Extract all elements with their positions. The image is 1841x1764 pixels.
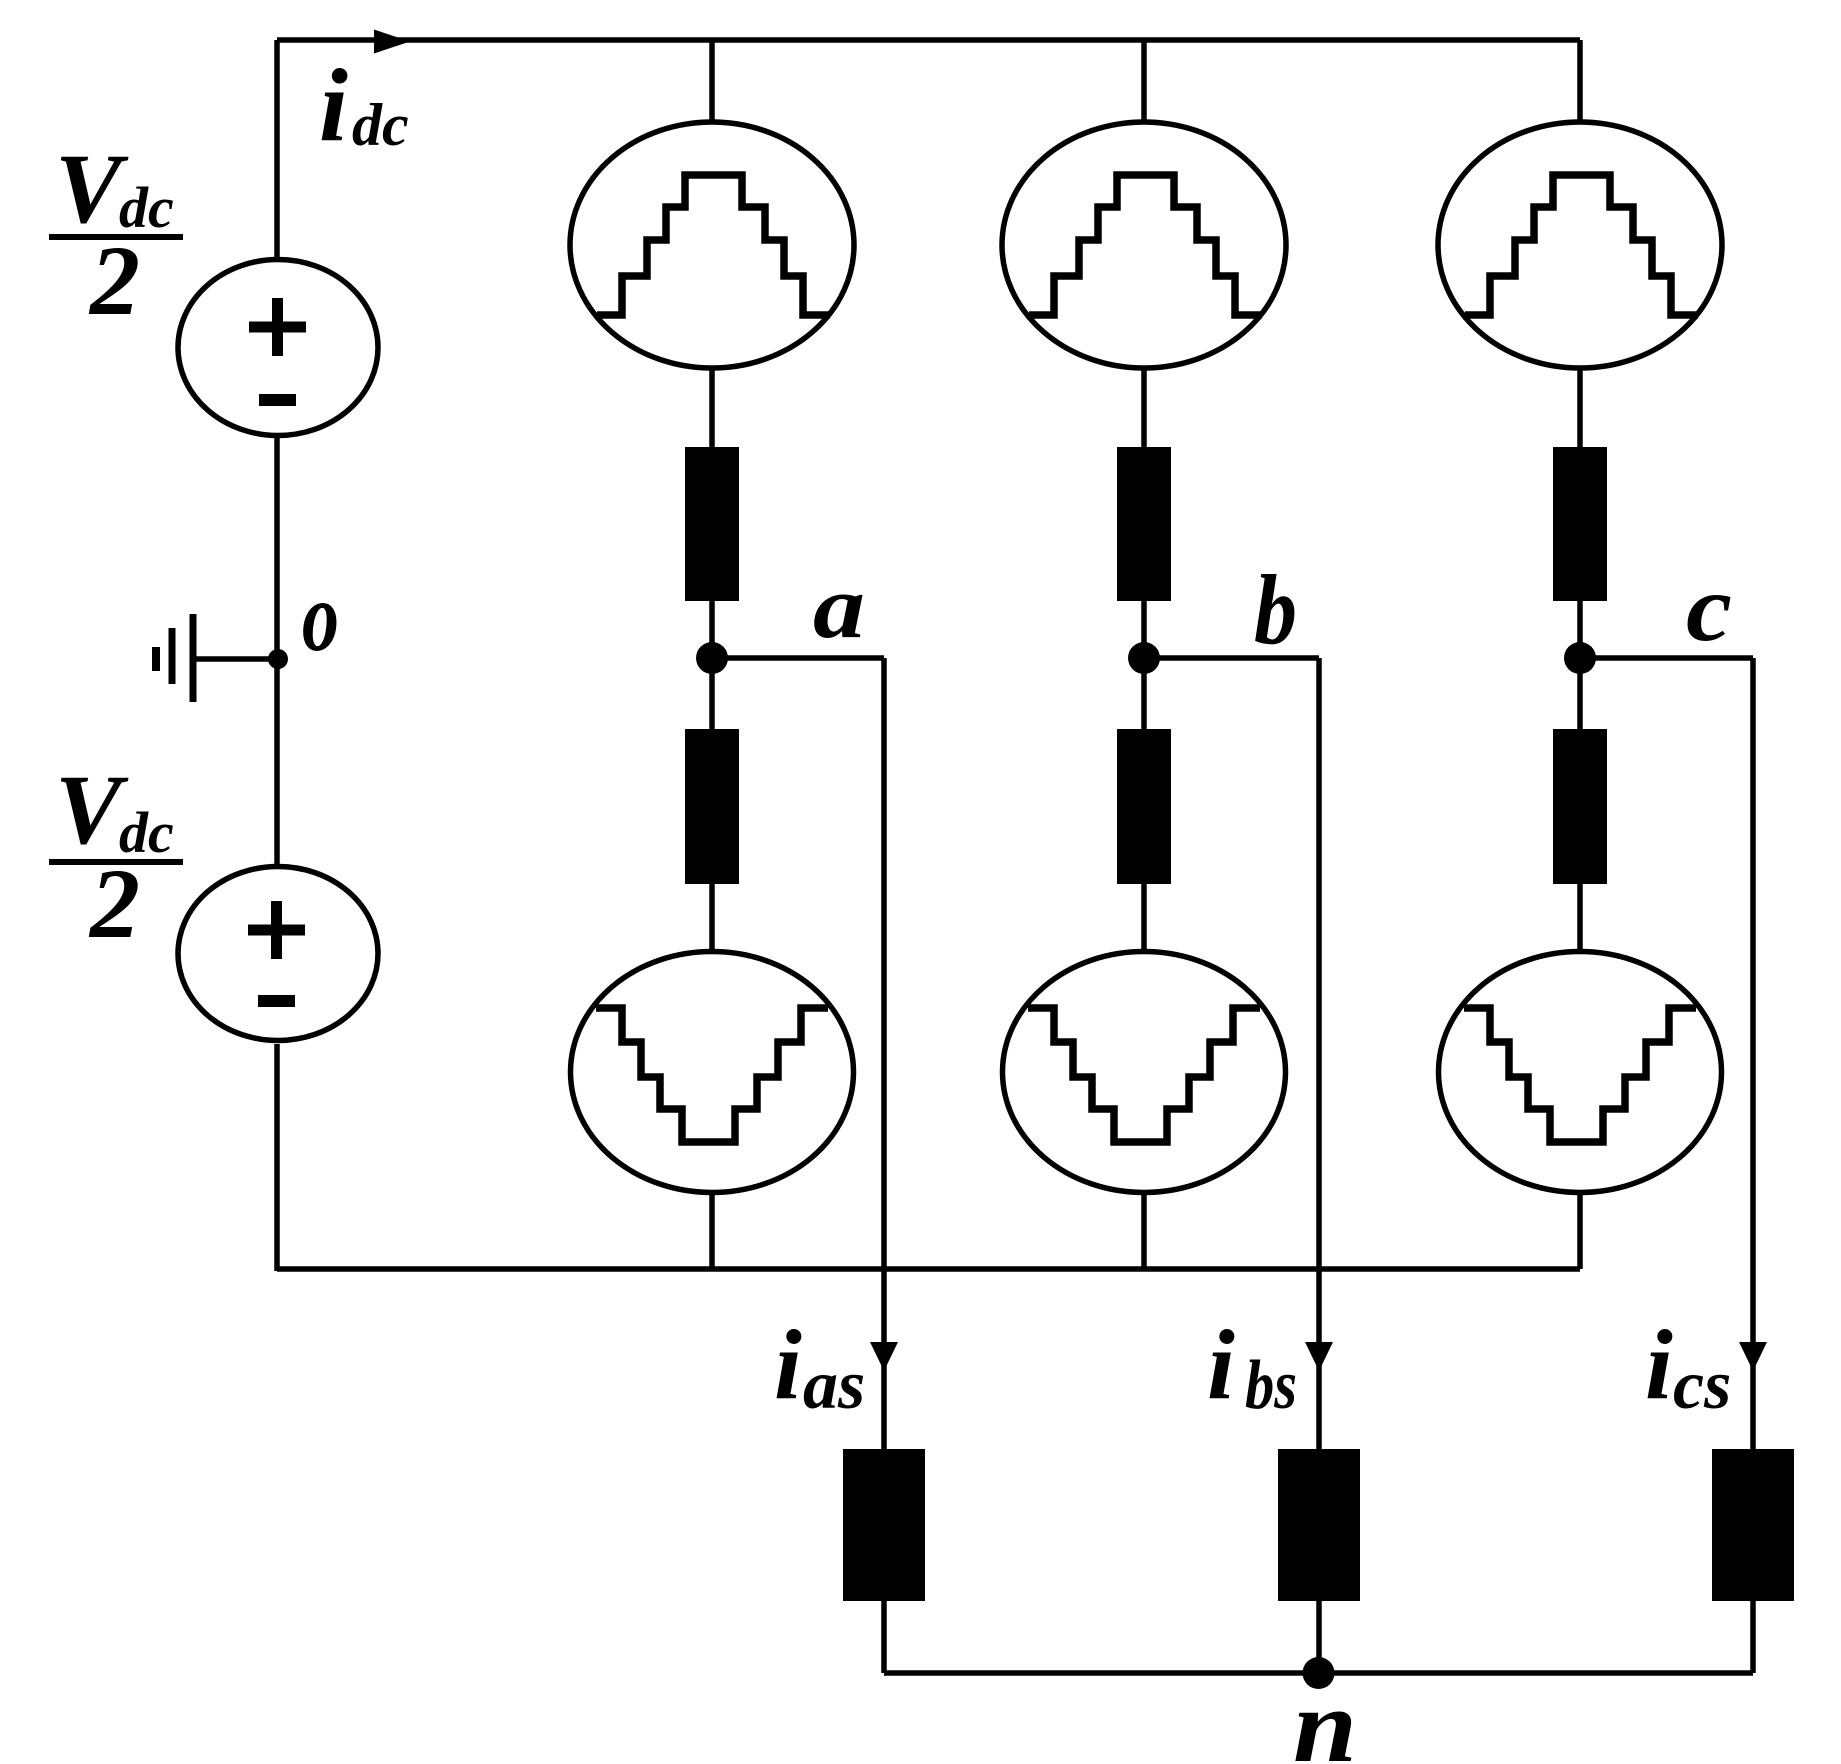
source c lower stepped	[1439, 952, 1722, 1193]
node n	[1293, 1657, 1357, 1764]
wire load a to node n	[884, 1601, 1318, 1673]
svg-text:a: a	[813, 558, 865, 657]
wire source a lower to bottom rail	[709, 1195, 715, 1269]
svg-text:n: n	[1293, 1667, 1357, 1764]
wire impedance c lower to source c lower	[1577, 884, 1583, 951]
impedance c lower	[1553, 729, 1607, 884]
source a upper stepped	[570, 122, 854, 368]
source b upper stepped	[1002, 122, 1286, 368]
svg-text:bs: bs	[1245, 1347, 1297, 1424]
wire bottom rail	[277, 1266, 1580, 1272]
wire source c lower to bottom rail	[1577, 1195, 1583, 1269]
impedance a upper	[685, 447, 739, 601]
ground	[156, 614, 277, 702]
svg-text:cs: cs	[1673, 1347, 1731, 1424]
wire node o to V2	[274, 659, 280, 866]
wire left rail top	[274, 40, 280, 260]
wire source c upper to impedance c upper	[1577, 367, 1583, 450]
wire top rail to upper source a	[709, 40, 715, 121]
wire node c branch	[1580, 658, 1753, 1451]
impedance b upper	[1117, 447, 1171, 601]
label i_cs	[1645, 1309, 1731, 1424]
source V1 Vdc/2 upper	[178, 260, 378, 436]
node a	[696, 558, 865, 674]
arrow i_cs	[1739, 1342, 1767, 1371]
label Vdc/2 lower	[49, 754, 183, 959]
svg-text:o: o	[302, 561, 339, 672]
arrow i_bs	[1305, 1342, 1333, 1371]
source a lower stepped	[571, 952, 854, 1193]
load impedance a	[843, 1449, 925, 1601]
svg-text:2: 2	[88, 225, 140, 336]
source b lower stepped	[1003, 952, 1286, 1193]
svg-text:dc: dc	[352, 92, 409, 158]
wire top dc rail	[277, 37, 1580, 43]
load impedance b	[1278, 1449, 1360, 1601]
svg-text:c: c	[1686, 555, 1732, 661]
svg-text:as: as	[803, 1347, 865, 1424]
wire node b to impedance b lower	[1141, 658, 1147, 731]
source V2 Vdc/2 lower	[178, 867, 378, 1041]
impedance b lower	[1117, 729, 1171, 884]
wire impedance a upper to node a	[709, 601, 715, 660]
node o	[268, 561, 339, 672]
label Vdc/2 upper	[49, 133, 183, 336]
arrow i_as	[870, 1342, 898, 1371]
source c upper stepped	[1438, 122, 1722, 368]
wire impedance a lower to source a lower	[709, 884, 715, 951]
wire source b upper to impedance b upper	[1141, 367, 1147, 450]
wire source b lower to bottom rail	[1141, 1195, 1147, 1269]
arrow i_dc direction	[374, 30, 410, 54]
label i_as	[774, 1309, 865, 1424]
impedance c upper	[1553, 447, 1607, 601]
wire V1 to node o	[274, 438, 280, 659]
wire top rail to upper source b	[1141, 40, 1147, 121]
wire node c to impedance c lower	[1577, 658, 1583, 731]
wire load c to node n	[1318, 1601, 1753, 1673]
wire impedance c upper to node c	[1577, 601, 1583, 660]
svg-text:i: i	[774, 1309, 802, 1420]
wire impedance b upper to node b	[1141, 601, 1147, 660]
impedance a lower	[685, 729, 739, 884]
svg-text:i: i	[1645, 1309, 1673, 1420]
wire V2 to bottom rail	[274, 1044, 280, 1271]
wire node a to impedance a lower	[709, 658, 715, 731]
label i_bs	[1207, 1309, 1297, 1424]
wire impedance b lower to source b lower	[1141, 884, 1147, 951]
svg-text:i: i	[319, 48, 348, 163]
wire node a branch	[712, 658, 884, 1451]
wire node b branch	[1144, 658, 1319, 1451]
wire load b to node n	[1316, 1601, 1322, 1673]
svg-text:b: b	[1254, 554, 1297, 665]
load impedance c	[1712, 1449, 1794, 1601]
node c	[1564, 555, 1732, 674]
wire source a upper to impedance a upper	[709, 367, 715, 450]
node b	[1128, 554, 1297, 674]
svg-text:i: i	[1207, 1309, 1235, 1420]
svg-text:2: 2	[88, 848, 140, 959]
wire top rail to upper source c	[1577, 40, 1583, 121]
label i_dc	[319, 48, 409, 163]
